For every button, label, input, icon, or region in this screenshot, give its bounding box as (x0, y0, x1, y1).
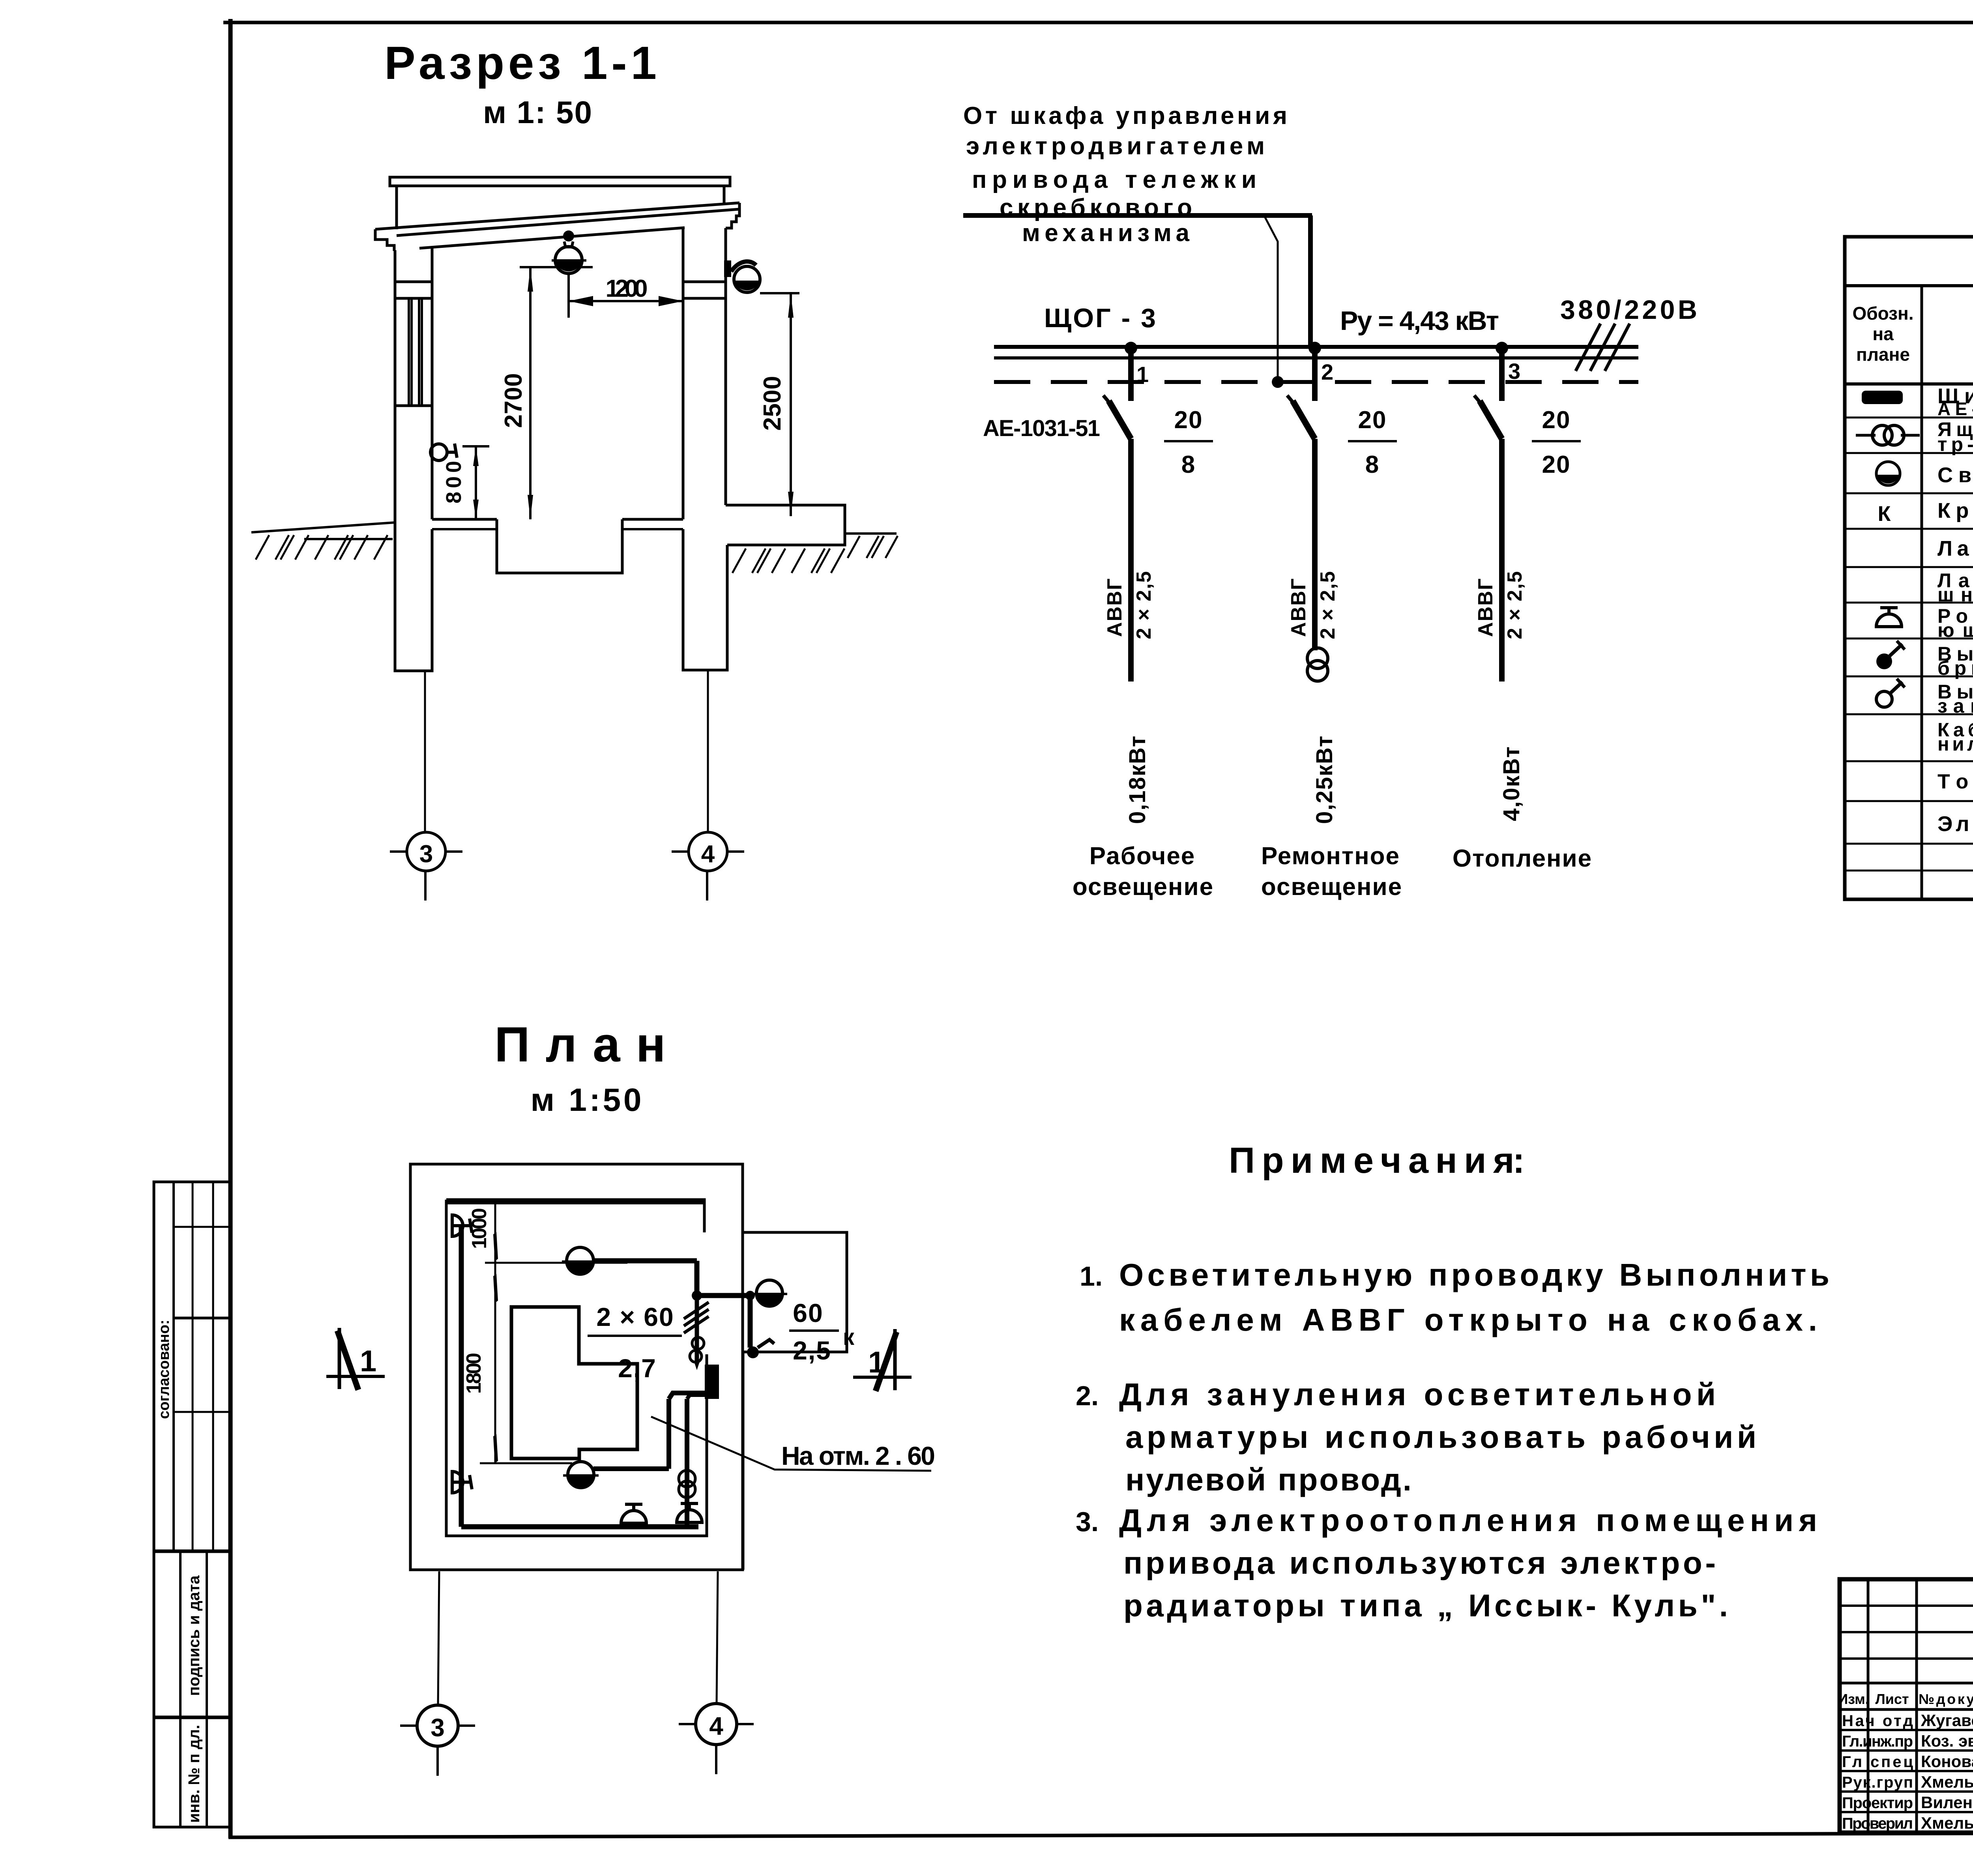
svg-text:нилхлоридной изоляц. сеч. 2 ×: нилхлоридной изоляц. сеч. 2 × 2,5 (1937, 734, 1973, 755)
left strip col b (192, 1182, 194, 1551)
annex lamp drop (748, 1296, 753, 1348)
dimension 800 line (475, 446, 477, 519)
svg-text:20: 20 (1542, 451, 1571, 478)
sheet frame left border (228, 19, 233, 1838)
right wall ledge band (683, 281, 726, 283)
dimension 2700 line (529, 267, 532, 519)
left wall window sill (395, 404, 432, 407)
svg-text:согласовано:: согласовано: (156, 1320, 172, 1419)
bracket lamp on right wall (724, 260, 731, 277)
pit under drive (497, 519, 622, 573)
bus bar double line (994, 345, 1638, 349)
svg-text:1.: 1. (1080, 1261, 1103, 1292)
spec symbol transformer (1856, 434, 1876, 437)
svg-text:На отм. 2 . 60: На отм. 2 . 60 (781, 1441, 935, 1470)
arrow into panel (694, 1361, 700, 1370)
svg-text:0,18кВт: 0,18кВт (1125, 735, 1150, 824)
svg-text:От шкафа управления: От шкафа управления (963, 102, 1287, 129)
junction dot annex (745, 1291, 755, 1300)
svg-text:2,5: 2,5 (793, 1336, 831, 1365)
floor slab bottom line (432, 528, 497, 530)
svg-text:АВВГ: АВВГ (1474, 578, 1497, 637)
svg-text:1: 1 (360, 1344, 376, 1378)
svg-text:1: 1 (868, 1346, 885, 1379)
svg-text:Лист: Лист (1875, 1691, 1909, 1707)
dimension 800 tick (462, 445, 489, 447)
svg-text:3: 3 (431, 1713, 445, 1742)
left strip col e (206, 1551, 208, 1827)
left strip row line 1 (174, 1226, 230, 1228)
left table top small rows (1840, 1605, 1973, 1607)
svg-text:60: 60 (793, 1298, 823, 1327)
svg-text:Коз. эвская: Коз. эвская (1921, 1732, 1973, 1750)
spec row line (1845, 602, 1973, 604)
left wall outer face (394, 250, 397, 522)
svg-text:Отопление: Отопление (1453, 845, 1592, 872)
transformer YaTP plan symbol (679, 1470, 695, 1487)
circuit breaker QF3 (1499, 351, 1505, 401)
spec col obozn (1921, 286, 1923, 899)
spec row line (1845, 713, 1973, 715)
tap dots on bus (1125, 342, 1137, 354)
svg-text:привода тележки: привода тележки (972, 166, 1256, 193)
pendant lamp 1 plan (567, 1247, 593, 1274)
svg-text:2 × 60: 2 × 60 (596, 1302, 674, 1331)
switch in annex (747, 1346, 759, 1358)
svg-text:1000: 1000 (468, 1208, 491, 1249)
spec row line (1845, 417, 1973, 419)
section mark 1 left (326, 1375, 385, 1378)
svg-text:4: 4 (709, 1712, 723, 1740)
plan wall inner thick top (446, 1200, 704, 1204)
feed drop to panel (695, 1296, 699, 1362)
column bubble 3 (407, 832, 446, 871)
spec row line (1845, 452, 1973, 454)
svg-text:Осветительную проводку Вып: Осветительную проводку Выполнить (1119, 1257, 1829, 1292)
svg-text:Обозн.: Обозн. (1852, 303, 1913, 324)
left wall ledge band (395, 281, 432, 283)
svg-text:арматуры использовать рабочи: арматуры использовать рабочий (1125, 1419, 1756, 1455)
svg-text:подпись и дата: подпись и дата (185, 1575, 203, 1696)
spec symbol switch splashproof (1876, 653, 1892, 669)
svg-text:2700: 2700 (500, 373, 527, 428)
column axis line 4 (707, 671, 709, 832)
circuit breaker QF1 AE-1031-51 (1128, 351, 1134, 401)
svg-text:20: 20 (1358, 406, 1387, 434)
lamp extension line (520, 266, 593, 268)
spec table title line (1845, 284, 1973, 287)
junction dot on dashed boundary (1272, 376, 1284, 388)
wire to annex lamp (697, 1293, 752, 1298)
plan dim extension to lamp1 (485, 1262, 627, 1264)
left table verticals (1867, 1579, 1870, 1833)
window mullion 3 (418, 298, 420, 406)
svg-text:2: 2 (1321, 359, 1333, 384)
spec table outer frame (1845, 237, 1973, 899)
title block outer frame (1840, 1579, 1973, 1833)
svg-text:освещение: освещение (1261, 873, 1402, 901)
socket bottom wall 2 (677, 1510, 702, 1522)
feeder drop to bus (1308, 215, 1313, 348)
svg-text:2 × 2,5: 2 × 2,5 (1133, 571, 1155, 639)
ground line right of pad (845, 532, 897, 535)
roof cap slab (390, 177, 730, 186)
pendant lamp 2 plan annex (756, 1280, 782, 1306)
left strip row line 3 (174, 1411, 230, 1413)
right wall outer face (724, 228, 727, 505)
svg-text:Разрез 1-1: Разрез 1-1 (384, 37, 657, 89)
svg-text:Ру = 4,43 кВт: Ру = 4,43 кВт (1340, 306, 1499, 336)
svg-text:3: 3 (1508, 359, 1520, 384)
machine outline (511, 1307, 637, 1458)
left table header row line (1840, 1708, 1973, 1711)
socket bottom wall 1 (621, 1511, 646, 1523)
svg-text:4: 4 (701, 841, 715, 868)
wire lamp1 corner down (694, 1261, 700, 1296)
left strip section line 2 (154, 1716, 230, 1719)
svg-text:Для электроотопления помещен: Для электроотопления помещения (1119, 1503, 1817, 1538)
column axis line 3 (424, 672, 426, 832)
svg-text:тр-ром 250ВА, 220/36В: тр-ром 250ВА, 220/36В (1937, 433, 1973, 455)
panel shchitok filled (705, 1365, 719, 1399)
left foundation column (395, 522, 432, 671)
sheet frame top border (223, 21, 1973, 24)
spec row line (1845, 638, 1973, 640)
roof slab top line (375, 203, 739, 229)
svg-text:2500: 2500 (759, 376, 786, 431)
svg-text:2 × 2,5: 2 × 2,5 (1316, 571, 1339, 639)
left strip row line 2 (174, 1317, 230, 1320)
svg-text:3.: 3. (1076, 1506, 1099, 1537)
feeder tap thin line (1265, 217, 1278, 381)
left strip col c (212, 1182, 214, 1551)
svg-text:2,7: 2,7 (618, 1354, 657, 1383)
parapet left edge (395, 186, 398, 229)
roof slab second line (397, 209, 739, 236)
right foundation column (683, 529, 727, 670)
svg-text:Рабочее: Рабочее (1089, 843, 1196, 870)
svg-text:ЩОГ - 3: ЩОГ - 3 (1044, 303, 1156, 333)
wall switch symbol in section (431, 444, 447, 461)
window mullion 1 (408, 298, 410, 406)
circuit breaker QF2 (1312, 351, 1318, 401)
svg-text:Хмельницкая: Хмельницкая (1921, 1773, 1973, 1791)
svg-text:радиаторы типа „ Иссык- Куль".: радиаторы типа „ Иссык- Куль". (1123, 1588, 1728, 1623)
parapet right edge (723, 186, 726, 203)
sheet frame bottom border (228, 1832, 1973, 1837)
svg-text:Изм.: Изм. (1838, 1691, 1869, 1707)
left wall inner face (431, 248, 434, 519)
section mark 1 right (853, 1376, 912, 1379)
svg-text:Проверил: Проверил (1842, 1815, 1913, 1832)
right footing pad (726, 505, 845, 545)
left cornice steps (375, 229, 394, 251)
switch circle 2 on feed (690, 1350, 702, 1362)
panel wire down 2 (685, 1399, 689, 1527)
svg-text:20: 20 (1174, 406, 1203, 434)
pendant lamp 3 plan (568, 1462, 594, 1488)
svg-text:Хмель ицка: Хмель ицка (1921, 1814, 1973, 1832)
spec symbol socket (1876, 614, 1902, 627)
bracket lamp extension line (760, 292, 799, 294)
plan bubble 3 (417, 1705, 458, 1746)
spec row line (1845, 843, 1973, 845)
transformer YaTP on circuit 2 (1307, 648, 1328, 668)
svg-text:плане: плане (1856, 344, 1910, 365)
dimension 1200 line (569, 300, 683, 302)
luminaire pendant in section (563, 230, 574, 242)
spec symbol switch protected (1876, 691, 1892, 707)
window mullion 4 (421, 298, 423, 406)
wire lamp1 horizontal (593, 1258, 697, 1264)
svg-text:механизма: механизма (1022, 219, 1190, 247)
svg-text:800: 800 (442, 461, 466, 504)
svg-text:20: 20 (1542, 406, 1571, 434)
svg-text:м 1: 50: м 1: 50 (483, 95, 592, 130)
spec row line (1845, 676, 1973, 678)
svg-text:Гл.инж.пр: Гл.инж.пр (1842, 1733, 1913, 1750)
svg-text:Для зануления осветительной: Для зануления осветительной (1119, 1377, 1716, 1412)
plan axis line 4 (717, 1571, 718, 1704)
three-wire slashes on feed (684, 1309, 709, 1326)
svg-text:Жугавель: Жугавель (1921, 1711, 1973, 1730)
svg-text:освещение: освещение (1073, 873, 1214, 901)
right wall inner face (682, 228, 685, 519)
floor slab top line (432, 518, 497, 521)
switch circle 1 on feed (692, 1337, 704, 1349)
feeder main wire (963, 213, 1312, 218)
left strip col a (172, 1182, 175, 1551)
svg-text:2 × 2,5: 2 × 2,5 (1503, 571, 1526, 639)
svg-text:К: К (1878, 502, 1891, 526)
svg-text:П р и м е ч а н и я:: П р и м е ч а н и я: (1229, 1140, 1525, 1181)
spec row line (1845, 492, 1973, 494)
plan bubble 4 (696, 1704, 737, 1745)
ground hatch below pad (732, 549, 746, 573)
svg-text:к: к (843, 1324, 855, 1350)
plan axis line 3 (438, 1571, 439, 1705)
spec table header bottom (1845, 382, 1973, 386)
plan outer wall (410, 1164, 743, 1570)
plan inner wall (446, 1200, 707, 1536)
spec row line (1845, 870, 1973, 872)
svg-text:АВВГ: АВВГ (1287, 578, 1310, 637)
spec symbol lamp (1876, 462, 1900, 485)
svg-text:1: 1 (1136, 362, 1149, 387)
svg-text:3: 3 (419, 841, 433, 868)
svg-text:1800: 1800 (462, 1353, 485, 1394)
svg-text:1200: 1200 (606, 275, 648, 302)
left strip section line (154, 1550, 230, 1553)
annex wall bottom right return (742, 1352, 745, 1570)
spec row line (1845, 528, 1973, 530)
svg-text:Коновалова: Коновалова (1921, 1752, 1973, 1771)
leader na otm 2.60 (651, 1417, 931, 1471)
lamp3 wire (593, 1466, 669, 1471)
panel dashed boundary (994, 380, 1638, 384)
annex outline (743, 1232, 847, 1352)
wall lamp bottom left (452, 1472, 463, 1493)
svg-text:Виленский: Виленский (1921, 1793, 1973, 1812)
svg-text:АВВГ: АВВГ (1103, 578, 1126, 637)
svg-text:инв. № п дл.: инв. № п дл. (185, 1725, 203, 1823)
panel wire down 1 (666, 1399, 671, 1469)
spec row line (1845, 566, 1973, 568)
svg-text:8: 8 (1365, 451, 1380, 478)
spec row line (1845, 800, 1973, 802)
left strip table frame (154, 1182, 230, 1827)
svg-text:АЕ-1031-51: АЕ-1031-51 (983, 416, 1100, 441)
wall lamp top left (452, 1215, 463, 1236)
svg-text:4,0кВт: 4,0кВт (1499, 746, 1524, 821)
left strip col d (179, 1551, 182, 1827)
ceiling line (419, 228, 685, 248)
wire bottom wall (461, 1524, 698, 1530)
dimension 1200 extension (567, 272, 570, 318)
ground line left (251, 522, 395, 532)
plan dim extension bottom (480, 1462, 572, 1464)
svg-text:Ремонтное: Ремонтное (1261, 843, 1400, 870)
ground hatch left (256, 535, 269, 560)
spec row line split at tip col (1845, 760, 1973, 762)
svg-text:0,25кВт: 0,25кВт (1312, 735, 1337, 824)
dimension 2500 line (790, 293, 792, 516)
right cornice steps (726, 203, 739, 228)
left table name rows (1840, 1729, 1973, 1731)
svg-text:на: на (1872, 324, 1894, 344)
svg-text:м 1:50: м 1:50 (531, 1082, 642, 1118)
svg-text:2.: 2. (1076, 1380, 1099, 1411)
bus phase slashes (1576, 324, 1600, 371)
ground hatch right of pad (848, 536, 860, 558)
window mullion 2 (410, 298, 413, 406)
svg-text:8: 8 (1181, 451, 1196, 478)
column bubble 4 (689, 832, 727, 871)
wire left wall (459, 1225, 464, 1527)
svg-text:Проектир: Проектир (1842, 1794, 1913, 1812)
junction dot plan (692, 1290, 702, 1301)
svg-text:электродвигателем: электродвигателем (966, 133, 1265, 160)
plan dim line vertical (494, 1204, 496, 1463)
svg-text:нулевой провод.: нулевой провод. (1125, 1462, 1411, 1497)
